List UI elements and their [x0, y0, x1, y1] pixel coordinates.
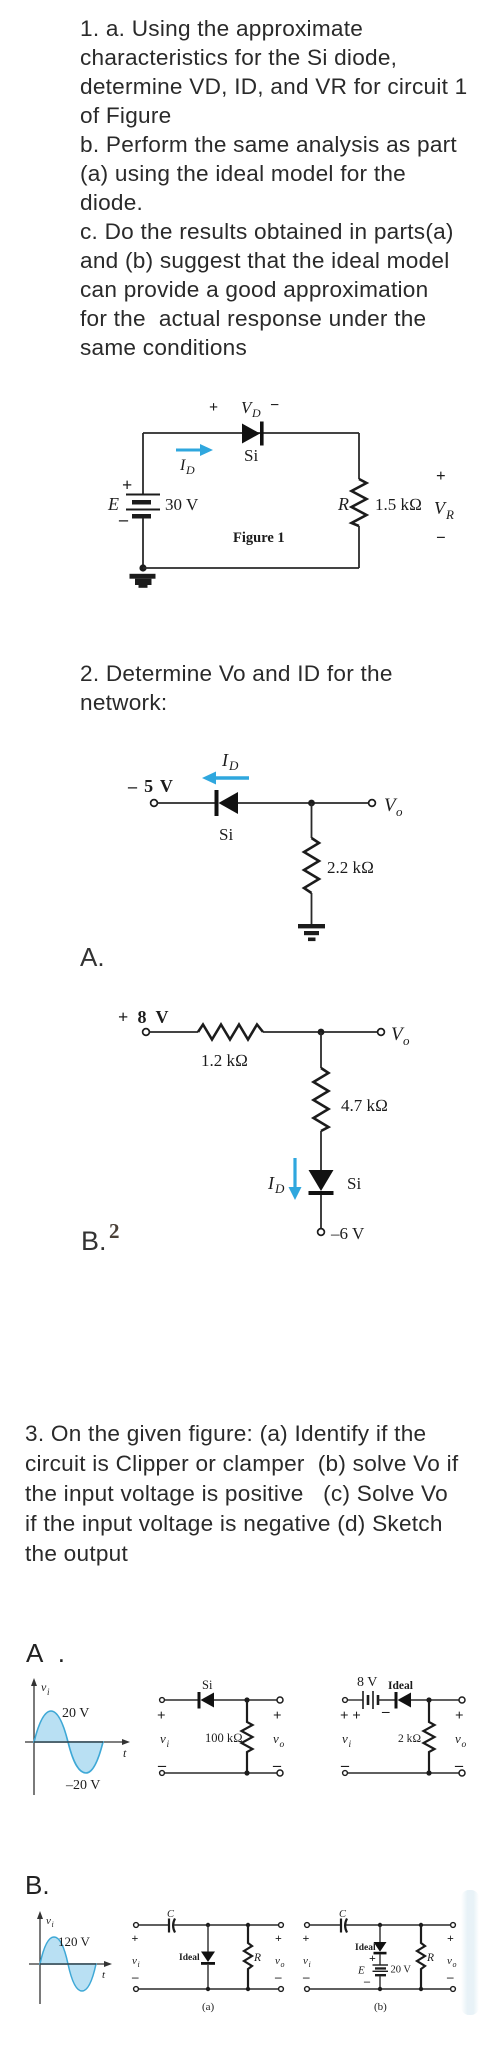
- resistor 2k vertical: [424, 1700, 435, 1773]
- svg-text:20 V: 20 V: [391, 1965, 412, 1976]
- svg-text:Figure 1: Figure 1: [233, 530, 285, 546]
- svg-text:+: +: [436, 466, 446, 485]
- wire bottom: [143, 567, 359, 569]
- wire capacitor to out: [174, 1924, 278, 1926]
- node bottom resistor: [246, 1987, 250, 1991]
- node resistor top: [246, 1923, 250, 1927]
- svg-text:o: o: [462, 1740, 467, 1750]
- diode Ideal pointing left: [395, 1692, 412, 1709]
- diode Ideal pointing down: [201, 1952, 215, 1965]
- wire to capacitor: [139, 1924, 168, 1926]
- terminal out top: [451, 1923, 456, 1928]
- problem 2 text: [80, 659, 480, 717]
- label vi axis: [46, 1915, 54, 1929]
- node diode top: [378, 1923, 382, 1927]
- label Si: [202, 1678, 213, 1692]
- label vi: [342, 1731, 352, 1750]
- terminal out top: [459, 1697, 465, 1703]
- diode D1 Si: [242, 422, 264, 446]
- svg-text:120 V: 120 V: [58, 1934, 91, 1949]
- label - battery: [363, 1974, 371, 1988]
- label + VD - (blue): [209, 397, 279, 420]
- battery E 20V: [373, 1965, 389, 1976]
- wire input to resistor: [150, 1031, 199, 1033]
- label vo blue: [447, 1955, 457, 1969]
- svg-text:100 kΩ: 100 kΩ: [205, 1731, 243, 1745]
- label + left: [157, 1708, 166, 1724]
- svg-text:v: v: [132, 1955, 137, 1967]
- label + left: [132, 1931, 139, 1945]
- node top: [426, 1697, 431, 1702]
- terminal output: [378, 1029, 385, 1036]
- wire diode to output: [238, 802, 369, 804]
- label vi: [132, 1955, 140, 1969]
- svg-text:D: D: [251, 406, 261, 420]
- node top: [244, 1697, 249, 1702]
- svg-text:+: +: [157, 1708, 166, 1724]
- label + right blue: [275, 1931, 282, 1945]
- resistor R zigzag: [352, 479, 367, 526]
- row B figure: [0, 1855, 499, 2025]
- label + right blue: [455, 1708, 464, 1724]
- figure 1 circuit: [90, 393, 475, 603]
- terminal out top: [277, 1697, 283, 1703]
- wire input to diode: [158, 802, 216, 804]
- svg-text:D: D: [274, 1181, 285, 1196]
- wire to capacitor: [310, 1924, 340, 1926]
- wire top left: [165, 1699, 198, 1701]
- label 1.5 kOhm: [375, 495, 422, 514]
- svg-text:o: o: [280, 1740, 285, 1750]
- label - right blue: [274, 1969, 282, 1984]
- label vi: [303, 1955, 311, 1969]
- svg-text:(b): (b): [374, 2001, 387, 2013]
- wire diode to out: [411, 1699, 459, 1701]
- svg-text:2 kΩ: 2 kΩ: [398, 1733, 421, 1745]
- node resistor top: [419, 1923, 423, 1927]
- svg-text:−: −: [270, 397, 279, 414]
- label 2.2 kOhm: [327, 858, 374, 877]
- label - left: [340, 1757, 350, 1774]
- svg-text:+: +: [303, 1931, 310, 1945]
- label Si: [244, 446, 258, 465]
- label (a): [202, 2001, 215, 2013]
- svg-text:Si: Si: [219, 825, 233, 844]
- wire left vertical (top): [142, 433, 144, 494]
- terminal in bottom: [305, 1987, 310, 1992]
- wire bottom: [139, 1988, 278, 1990]
- wire diode branch bottom: [207, 1965, 209, 1989]
- svg-text:– 5 V: – 5 V: [127, 776, 174, 796]
- svg-text:–6 V: –6 V: [330, 1224, 365, 1243]
- svg-text:R: R: [337, 494, 349, 514]
- circuit 2 network: [110, 740, 430, 950]
- node bottom diode: [206, 1987, 210, 1991]
- label Ideal: [355, 1943, 376, 1953]
- svg-text:2.2 kΩ: 2.2 kΩ: [327, 858, 374, 877]
- label - left: [131, 1969, 139, 1984]
- resistor 1.2k horizontal zigzag: [198, 1025, 263, 1040]
- diode Si pointing left: [198, 1692, 215, 1709]
- wire battery to bottom: [379, 1976, 381, 1989]
- svg-text:8 V: 8 V: [357, 1675, 377, 1690]
- wire capacitor to out: [346, 1924, 450, 1926]
- svg-text:+: +: [447, 1931, 454, 1945]
- svg-text:+: +: [455, 1708, 464, 1724]
- svg-text:–: –: [274, 1969, 282, 1984]
- svg-text:+: +: [132, 1931, 139, 1945]
- current arrow ID (blue, pointing left): [202, 772, 249, 785]
- label + right blue: [447, 1931, 454, 1945]
- wire top (E to diode to R): [143, 432, 359, 434]
- wire left vertical (bottom): [142, 518, 144, 568]
- svg-text:–: –: [381, 1704, 390, 1720]
- svg-text:i: i: [52, 1920, 54, 1929]
- svg-text:R: R: [426, 1952, 434, 1964]
- svg-text:+ 8 V: + 8 V: [118, 1007, 171, 1027]
- label ID (blue): [221, 750, 239, 773]
- wire junction down: [320, 1032, 322, 1068]
- svg-text:R: R: [253, 1952, 261, 1964]
- wire diode to battery: [379, 1954, 381, 1964]
- battery - sign: [118, 509, 129, 529]
- svg-text:Si: Si: [244, 446, 258, 465]
- wire right vertical bottom: [358, 526, 360, 568]
- wire resistor to ground: [311, 893, 313, 924]
- wire diode branch top: [379, 1925, 381, 1942]
- label A.: [80, 942, 105, 973]
- ground: [130, 574, 156, 588]
- svg-text:v: v: [447, 1955, 452, 1967]
- current arrow ID (blue, down): [289, 1158, 302, 1200]
- circuit A1 terminal in top: [160, 1698, 165, 1703]
- svg-text:I: I: [221, 750, 229, 770]
- label Vo (blue): [384, 795, 403, 819]
- svg-text:i: i: [309, 1960, 311, 1969]
- label 1.2 kOhm: [201, 1051, 248, 1070]
- label vi: [160, 1731, 170, 1750]
- terminal out bottom: [279, 1987, 284, 1992]
- svg-text:v: v: [342, 1731, 348, 1746]
- terminal in bottom: [160, 1771, 165, 1776]
- label R: [253, 1952, 261, 1964]
- label vo blue: [275, 1955, 285, 1969]
- svg-text:i: i: [138, 1960, 140, 1969]
- svg-text:v: v: [455, 1731, 461, 1746]
- page number 2: [109, 1219, 120, 1244]
- wire resistor to diode: [320, 1131, 322, 1170]
- terminal in bottom: [134, 1987, 139, 1992]
- svg-text:–: –: [118, 509, 129, 529]
- node bottom: [426, 1770, 431, 1775]
- svg-text:1.2 kΩ: 1.2 kΩ: [201, 1051, 248, 1070]
- label VR + - (blue): [434, 466, 454, 547]
- svg-text:–: –: [302, 1969, 310, 1984]
- label - left: [157, 1757, 167, 1774]
- label E: [357, 1965, 365, 1977]
- svg-text:–: –: [363, 1974, 371, 1988]
- label -6 V: [330, 1224, 365, 1243]
- svg-text:(a): (a): [202, 2001, 215, 2013]
- label C: [339, 1909, 347, 1920]
- svg-text:+ +: + +: [340, 1708, 361, 1724]
- resistor R branch: [244, 1925, 252, 1989]
- problem 3 text block: [25, 1419, 499, 1569]
- svg-text:Si: Si: [347, 1174, 361, 1193]
- svg-text:–20 V: –20 V: [65, 1778, 100, 1793]
- label (b): [374, 2001, 387, 2013]
- terminal input: [143, 1029, 150, 1036]
- node bottom resistor: [419, 1987, 423, 1991]
- label Ideal: [388, 1680, 413, 1692]
- label vo blue: [455, 1731, 467, 1750]
- label ID (blue): [179, 457, 195, 477]
- label t: [123, 1746, 127, 1760]
- label +8 V: [118, 1007, 171, 1027]
- diode D Si (pointing left): [215, 790, 239, 816]
- svg-text:v: v: [303, 1955, 308, 1967]
- svg-text:Ideal: Ideal: [179, 1953, 200, 1963]
- wire resistor to output: [263, 1031, 378, 1033]
- label Si: [347, 1174, 361, 1193]
- svg-text:D: D: [228, 758, 239, 773]
- label Vo (blue): [391, 1024, 410, 1048]
- label B. (row B): [25, 1870, 50, 1901]
- svg-text:+: +: [273, 1708, 282, 1724]
- svg-text:v: v: [275, 1955, 280, 1967]
- label - right blue: [446, 1969, 454, 1984]
- svg-text:v: v: [273, 1731, 279, 1746]
- label ID (blue): [267, 1173, 285, 1196]
- label -5 V: [127, 776, 174, 796]
- svg-text:30 V: 30 V: [165, 495, 199, 514]
- circuit a terminal in top: [134, 1923, 139, 1928]
- label -20 V: [65, 1778, 100, 1793]
- battery + sign: [122, 475, 132, 495]
- label + battery: [369, 1951, 376, 1965]
- circuit A2 terminal in top: [343, 1698, 348, 1703]
- node diode top: [206, 1923, 210, 1927]
- wire bottom: [348, 1772, 459, 1774]
- ground: [298, 924, 325, 941]
- label E: [107, 494, 119, 514]
- terminal -6V: [318, 1229, 325, 1236]
- label - right blue: [272, 1757, 282, 1774]
- svg-text:v: v: [160, 1731, 166, 1746]
- diode Si (pointing down): [309, 1170, 334, 1195]
- node junction: [308, 800, 315, 807]
- node bottom diode: [378, 1987, 382, 1991]
- svg-text:E: E: [107, 494, 119, 514]
- terminal out bottom: [451, 1987, 456, 1992]
- svg-text:–: –: [340, 1757, 350, 1774]
- svg-text:o: o: [281, 1960, 285, 1969]
- terminal out bottom: [277, 1770, 283, 1776]
- terminal out top: [279, 1923, 284, 1928]
- label 30 V: [165, 495, 199, 514]
- node bottom: [244, 1770, 249, 1775]
- svg-text:1.5 kΩ: 1.5 kΩ: [375, 495, 422, 514]
- svg-text:v: v: [46, 1915, 51, 1927]
- battery 8V plates: [363, 1691, 378, 1709]
- svg-text:Si: Si: [202, 1678, 213, 1692]
- resistor 2.2k zigzag: [304, 838, 319, 893]
- faint blue band: [461, 1890, 479, 2015]
- label 20 V: [391, 1965, 412, 1976]
- svg-text:+: +: [122, 475, 132, 495]
- svg-text:i: i: [167, 1740, 170, 1750]
- svg-text:–: –: [131, 1969, 139, 1984]
- label 100 kOhm: [205, 1731, 243, 1745]
- label 4.7 kOhm: [341, 1096, 388, 1115]
- circuit b terminal in top: [305, 1923, 310, 1928]
- label R: [426, 1952, 434, 1964]
- label C: [167, 1909, 175, 1920]
- svg-text:Ideal: Ideal: [388, 1680, 413, 1692]
- wire bottom: [165, 1772, 277, 1774]
- battery E: [126, 495, 160, 519]
- terminal in bottom: [343, 1771, 348, 1776]
- label - after battery: [381, 1704, 390, 1720]
- label 8 V: [357, 1675, 377, 1690]
- wire junction down: [311, 803, 313, 838]
- svg-text:I: I: [179, 457, 186, 474]
- waveform sine (blue filled): [40, 1937, 96, 1991]
- label 20 V: [62, 1706, 89, 1721]
- problem 1 text block: [80, 14, 485, 362]
- svg-text:C: C: [339, 1909, 347, 1920]
- wire bottom: [310, 1988, 450, 1990]
- label 2 kOhm: [398, 1733, 421, 1745]
- waveform vi axes: [25, 1684, 126, 1795]
- svg-text:t: t: [102, 1969, 106, 1981]
- wire diode to out: [214, 1699, 277, 1701]
- svg-text:I: I: [267, 1173, 275, 1193]
- waveform vi axes: [29, 1917, 108, 2004]
- svg-text:C: C: [167, 1909, 175, 1920]
- label + right blue: [273, 1708, 282, 1724]
- svg-text:R: R: [445, 507, 454, 522]
- wire right vertical top: [358, 433, 360, 479]
- diode Ideal pointing down: [374, 1942, 387, 1954]
- label - left: [302, 1969, 310, 1984]
- label 120 V: [58, 1934, 91, 1949]
- resistor 4.7k zigzag: [314, 1068, 329, 1131]
- svg-text:i: i: [349, 1740, 352, 1750]
- label R: [337, 494, 349, 514]
- svg-text:o: o: [403, 1033, 410, 1048]
- label vi axis: [41, 1680, 50, 1697]
- label t: [102, 1969, 106, 1981]
- svg-text:+: +: [369, 1951, 376, 1965]
- label + +: [340, 1708, 361, 1724]
- svg-text:–: –: [446, 1969, 454, 1984]
- svg-text:–: –: [157, 1757, 167, 1774]
- svg-text:4.7 kΩ: 4.7 kΩ: [341, 1096, 388, 1115]
- capacitor C: [341, 1919, 347, 1933]
- svg-text:t: t: [123, 1746, 127, 1760]
- circuit A network: [100, 1000, 440, 1260]
- capacitor C: [169, 1919, 175, 1933]
- svg-text:o: o: [396, 804, 403, 819]
- label Figure 1: [233, 530, 285, 546]
- label Ideal: [179, 1953, 200, 1963]
- wire diode to terminal: [320, 1195, 322, 1229]
- label - right blue: [454, 1757, 464, 1774]
- current arrow ID (blue): [176, 444, 213, 456]
- svg-text:D: D: [185, 463, 195, 477]
- terminal out bottom: [459, 1770, 465, 1776]
- label B.: [81, 1226, 107, 1257]
- label A .: [26, 1638, 65, 1669]
- row A figure: [0, 1640, 499, 1815]
- svg-text:−: −: [436, 528, 446, 547]
- wire to battery: [348, 1699, 363, 1701]
- node junction top: [318, 1029, 325, 1036]
- label + left: [303, 1931, 310, 1945]
- node junction dot: [139, 564, 146, 571]
- svg-text:+: +: [209, 399, 218, 416]
- wire diode branch top: [207, 1925, 209, 1952]
- label Si: [219, 825, 233, 844]
- svg-text:20 V: 20 V: [62, 1706, 89, 1721]
- resistor R branch: [417, 1925, 425, 1989]
- waveform sine (blue filled): [34, 1711, 103, 1773]
- terminal output: [369, 800, 376, 807]
- svg-text:i: i: [47, 1687, 50, 1697]
- terminal input: [151, 800, 158, 807]
- svg-text:+: +: [275, 1931, 282, 1945]
- svg-text:o: o: [453, 1960, 457, 1969]
- resistor 100k vertical: [242, 1700, 253, 1773]
- label vo blue: [273, 1731, 285, 1750]
- wire battery to diode: [378, 1699, 395, 1701]
